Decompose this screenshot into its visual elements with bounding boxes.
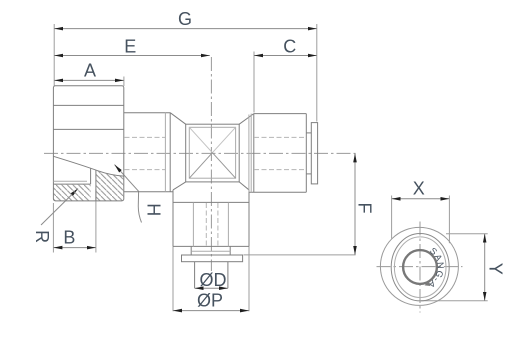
svg-text:ØD: ØD bbox=[200, 270, 227, 290]
svg-text:Y: Y bbox=[486, 263, 506, 275]
svg-text:X: X bbox=[413, 179, 425, 199]
svg-text:R: R bbox=[32, 230, 52, 243]
svg-text:C: C bbox=[283, 37, 296, 57]
svg-text:B: B bbox=[63, 227, 75, 247]
svg-text:E: E bbox=[124, 37, 136, 57]
svg-text:ØP: ØP bbox=[197, 291, 223, 311]
svg-text:H: H bbox=[144, 203, 164, 216]
svg-text:F: F bbox=[355, 203, 375, 214]
svg-text:A: A bbox=[84, 61, 96, 81]
svg-text:G: G bbox=[178, 9, 192, 29]
